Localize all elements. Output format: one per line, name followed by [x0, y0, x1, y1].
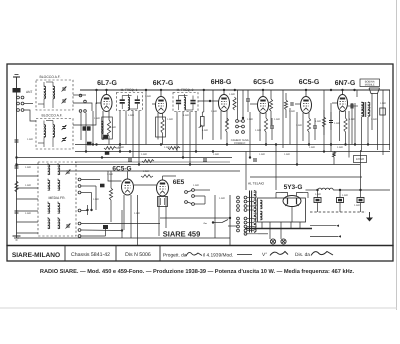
coupling parts V1-V2 area: [95, 89, 97, 104]
svg-text:M. FREQ. 1: M. FREQ. 1: [121, 88, 138, 92]
label 6K7-G: [153, 80, 174, 87]
svg-text:1.500: 1.500: [211, 110, 218, 113]
wire branch y199: [17, 198, 39, 200]
svg-text:6C5-G: 6C5-G: [112, 166, 131, 173]
ground arrow main: [366, 212, 373, 222]
wire rail y151.5: [75, 151, 390, 153]
title text il 1939: [203, 253, 233, 259]
wire branch y222: [17, 221, 39, 223]
svg-text:6N7-G: 6N7-G: [335, 80, 356, 87]
junction dots rail mid: [203, 89, 236, 91]
wire field coil line 2: [310, 235, 341, 237]
label choke: [0, 0, 1, 1]
tube V2 6K7-G: [156, 90, 167, 114]
wire b3 h6: [81, 210, 122, 238]
wire left col verticals: [81, 111, 93, 152]
tube V7 6C5-G: [122, 172, 134, 196]
title text Progett: [163, 253, 187, 259]
wire rail y177: [250, 176, 362, 178]
presa fono box: [354, 156, 367, 163]
page edge shadow bottom: [0, 307, 397, 309]
capacitor on antenna line 1: [15, 140, 19, 142]
title divider 2: [115, 246, 117, 262]
terminal circles mains bottom: [237, 217, 247, 235]
svg-text:ANT: ANT: [26, 90, 32, 94]
title dash: [237, 254, 252, 256]
svg-text:MEDIA FR.: MEDIA FR.: [49, 196, 66, 200]
svg-text:1.500: 1.500: [219, 197, 226, 200]
label MF2: [177, 88, 194, 92]
svg-text:1.500: 1.500: [380, 102, 387, 105]
svg-text:1.500: 1.500: [284, 153, 291, 156]
svg-text:1.500: 1.500: [141, 153, 148, 156]
cathode parts V4: [260, 113, 274, 145]
terminal circles mains top: [237, 196, 247, 211]
electrolytic C2: [337, 189, 344, 212]
capacitor on antenna line 2: [15, 166, 19, 168]
wire v drops 3: [213, 90, 290, 158]
schematic border frame: [7, 64, 393, 246]
wire mid connections: [108, 171, 176, 185]
wire sec leads down: [262, 222, 300, 239]
wire speaker leads: [372, 93, 378, 150]
cathode parts V2: [158, 113, 164, 145]
wire branch y211: [17, 210, 39, 212]
junction dots rails extra: [15, 143, 369, 165]
junction dots b3: [86, 209, 123, 232]
wire switch leads: [194, 190, 210, 204]
svg-text:1.500: 1.500: [143, 170, 150, 173]
svg-text:1.500: 1.500: [202, 129, 209, 132]
wire b+ down right: [360, 150, 362, 190]
wire rail AVC y144.5: [75, 144, 390, 146]
wire bottom rail B: [160, 217, 230, 219]
coil block B2: [36, 119, 73, 150]
title block outline: [7, 246, 393, 262]
switch label text: [231, 139, 250, 145]
title text Vo: [262, 252, 267, 258]
label blocco AF 1: [40, 75, 61, 79]
speaker label box: [360, 79, 380, 87]
decoupling c2: [203, 159, 207, 161]
resistor on antenna line: [15, 181, 18, 192]
svg-text:MOBILE: MOBILE: [365, 84, 375, 87]
svg-text:1.500: 1.500: [25, 184, 32, 187]
svg-text:1.500: 1.500: [259, 153, 266, 156]
wire branch y233: [17, 232, 39, 234]
label 6N7-G: [335, 80, 356, 87]
tube V3 6H8-G: [219, 90, 230, 112]
wire 5Y3 top leads: [281, 193, 303, 197]
decoupling r1: [104, 147, 120, 150]
wire ant sw to blocks: [24, 104, 36, 122]
IF transformer T1: [117, 93, 143, 111]
wire b3 h2: [81, 186, 96, 210]
output transformer T5: [361, 102, 370, 117]
decoupling r2: [168, 147, 180, 150]
capacitor blob c: [100, 184, 105, 188]
wire b3 h3: [81, 193, 92, 211]
resistor mid h: [141, 175, 153, 178]
wire b3 h7: [81, 228, 106, 237]
svg-text:1.500: 1.500: [334, 122, 341, 125]
svg-text:il 4.1939/Mod.: il 4.1939/Mod.: [203, 253, 233, 259]
svg-text:1.500: 1.500: [349, 118, 356, 121]
label 6C5-G mid: [112, 166, 131, 173]
cathode box V1: [102, 117, 113, 139]
cathode parts V6: [340, 111, 348, 145]
svg-text:1.500: 1.500: [128, 114, 135, 117]
svg-text:1.500: 1.500: [183, 114, 190, 117]
svg-text:6H8-G: 6H8-G: [211, 79, 232, 86]
parts V5 grid: [290, 103, 300, 105]
svg-text:1.500: 1.500: [289, 110, 296, 113]
svg-text:SIARE-MILANO: SIARE-MILANO: [12, 252, 60, 259]
wire v drops 1: [120, 111, 139, 165]
wire V7 down: [124, 195, 131, 238]
wire mid-to-bottom 1: [137, 195, 139, 246]
wire pot drop: [202, 90, 204, 112]
tube V6 6N7-G: [338, 90, 348, 112]
label blocco AF 2: [42, 114, 63, 118]
svg-text:1.500: 1.500: [255, 129, 262, 132]
label 6E5: [173, 179, 185, 186]
capacitor V5-V6: [329, 112, 333, 130]
title text SIARE-MILANO: [12, 252, 60, 259]
wire top rail: [80, 89, 390, 91]
capacitor det: [246, 90, 250, 112]
svg-text:V°: V°: [262, 252, 267, 258]
wire branch y188: [17, 187, 39, 189]
svg-text:6K7-G: 6K7-G: [153, 80, 174, 87]
wire b3 h4: [81, 205, 88, 215]
svg-text:1.500: 1.500: [309, 146, 316, 149]
coil block B3: [38, 162, 76, 236]
osc blob: [83, 126, 91, 130]
secondary winding: [260, 200, 262, 220]
wire B2 out: [73, 103, 101, 125]
label 5Y3-G: [284, 184, 303, 191]
wire 5Y3 plate leads: [276, 193, 308, 199]
decoupling r3: [142, 160, 154, 163]
page edge shadow right: [396, 0, 398, 310]
svg-text:1.500: 1.500: [110, 126, 117, 129]
terminal circles B3 right: [78, 178, 81, 237]
capacitor blob b: [105, 151, 110, 155]
wire B+ line: [306, 189, 317, 191]
svg-text:Chassis 5841-42: Chassis 5841-42: [71, 252, 110, 258]
svg-text:1.500: 1.500: [167, 118, 174, 121]
capacitor out: [347, 104, 358, 109]
wire rail y162: [75, 161, 230, 163]
decoupling c3: [253, 159, 257, 161]
svg-text:Dis N 5006: Dis N 5006: [125, 252, 151, 258]
caption text: [40, 268, 355, 275]
resistor mid right: [284, 93, 287, 118]
svg-text:1.500: 1.500: [213, 153, 220, 156]
title text Dis N 5006: [125, 252, 151, 258]
signature dis: [311, 252, 333, 256]
wire chassis dashed: [310, 211, 366, 213]
label SIARE 459: [163, 230, 201, 239]
svg-text:BLOCCO A.F.: BLOCCO A.F.: [40, 75, 61, 79]
parts V6 grid: [332, 102, 338, 104]
label 6H8-G: [211, 79, 232, 86]
wire transformer taps: [247, 198, 254, 231]
capacitor on antenna line 3: [15, 211, 19, 213]
wire v drops 5: [349, 103, 355, 158]
svg-text:1.500: 1.500: [342, 194, 349, 197]
wire out stage: [352, 90, 357, 145]
wire det vertical: [238, 90, 244, 120]
label MF1: [121, 88, 138, 92]
capacitor blob a: [87, 142, 92, 146]
resistor grid V4: [269, 90, 272, 125]
junction dots tube tops: [105, 89, 343, 91]
svg-text:1.500: 1.500: [193, 184, 200, 187]
cathode parts V5: [303, 113, 317, 145]
wire v drops 4: [297, 90, 331, 165]
dial lamp 2: [281, 239, 286, 244]
svg-text:6C5-G: 6C5-G: [299, 79, 320, 86]
svg-text:M. FREQ. 2: M. FREQ. 2: [177, 88, 194, 92]
svg-text:1.500: 1.500: [354, 204, 361, 207]
svg-text:1.500: 1.500: [145, 95, 152, 98]
power transformer T4: [250, 191, 257, 233]
junction dot rail r: [330, 89, 356, 91]
resistor mid v: [109, 171, 112, 222]
tube V8 6E5: [157, 176, 169, 196]
mains tilde: [203, 221, 207, 228]
terminal circles grid left: [79, 94, 86, 112]
parts V4 grid: [250, 103, 257, 105]
wire mains vertical: [229, 195, 231, 246]
resistor V5-V6 a: [322, 110, 325, 135]
wire mains leads: [212, 220, 237, 227]
label al telaio: [248, 182, 264, 186]
cathode parts V1: [101, 111, 111, 145]
wire mid-to-bottom 2: [215, 195, 230, 238]
tube V5 6C5-G: [301, 90, 312, 114]
signature vo: [270, 252, 288, 256]
dial lamp 1: [270, 239, 275, 244]
wire rail y164.5: [17, 164, 361, 166]
svg-text:SIARE 459: SIARE 459: [163, 230, 201, 239]
junction rail dots: [95, 143, 346, 152]
svg-text:RADIO SIARE. — Mod. 450 e 459-: RADIO SIARE. — Mod. 450 e 459-Fono. — Pr…: [40, 268, 355, 275]
wire rail y157.5: [17, 157, 233, 159]
svg-text:1.500: 1.500: [118, 146, 125, 149]
svg-text:1.500: 1.500: [315, 120, 322, 123]
wire bottom rail A: [17, 237, 231, 239]
title divider 3: [159, 246, 161, 262]
svg-text:1.500: 1.500: [274, 118, 281, 121]
decoupling c1: [128, 159, 132, 161]
label media freq box: [49, 196, 66, 200]
label 6C5-G b: [299, 79, 320, 86]
wire antenna down: [16, 92, 18, 238]
wire hv vertical: [275, 145, 277, 191]
svg-text:1.500: 1.500: [296, 124, 303, 127]
svg-text:BLOCCO A.F.: BLOCCO A.F.: [42, 114, 63, 118]
title text Dis da: [295, 252, 310, 258]
junction bottom: [229, 217, 231, 219]
svg-text:1.500: 1.500: [229, 93, 236, 96]
electrolytic C3: [357, 189, 364, 212]
svg-text:1.500: 1.500: [164, 146, 171, 149]
cathode parts V3: [221, 111, 229, 145]
svg-text:1.500: 1.500: [93, 198, 100, 201]
label 6C5-G a: [253, 79, 274, 86]
signature progett: [186, 252, 202, 256]
svg-text:1.500: 1.500: [107, 173, 114, 176]
coil block B1: [36, 80, 73, 110]
tube V1 6L7-G: [101, 90, 112, 112]
label 6L7-G: [97, 80, 117, 87]
parts between T2 and V3: [198, 100, 219, 102]
svg-text:FONO: FONO: [356, 157, 365, 161]
wire field coil line 1: [310, 225, 339, 227]
wire B1 out: [73, 95, 92, 111]
resistor det 1: [233, 97, 236, 110]
wire V8 down: [159, 196, 166, 236]
antenna: [13, 75, 20, 93]
blob b3: [103, 225, 108, 229]
ground antenna line: [13, 236, 21, 240]
electrolytic C1: [314, 189, 321, 212]
svg-text:1.500: 1.500: [94, 117, 101, 120]
terminal circles antenna switch: [17, 96, 24, 111]
svg-text:1.500: 1.500: [337, 146, 344, 149]
svg-text:Progett. da: Progett. da: [163, 253, 187, 259]
volume potentiometer: [198, 112, 204, 140]
junction det: [242, 117, 244, 119]
resistor right v: [332, 152, 335, 165]
svg-text:1.500: 1.500: [27, 138, 34, 141]
wire lamp rail: [246, 233, 259, 235]
antenna coil blob: [13, 88, 33, 94]
tiny value labels: [25, 93, 387, 215]
wire b3 h5: [81, 223, 160, 225]
wire rail y171: [60, 170, 240, 172]
cathode box V2: [156, 117, 166, 137]
switch contacts mid: [185, 189, 195, 206]
filter choke L1: [316, 188, 390, 190]
phono jack box: [158, 197, 168, 207]
svg-text:1.500: 1.500: [371, 118, 378, 121]
band switch circles: [236, 120, 245, 134]
svg-text:1.500: 1.500: [25, 166, 32, 169]
svg-text:6L7-G: 6L7-G: [97, 80, 117, 87]
title text Chassis 5841-42: [71, 252, 110, 258]
svg-text:~: ~: [203, 221, 207, 228]
coupling parts V2 right: [145, 89, 156, 145]
power secondary box: [258, 198, 306, 222]
wire mid-to-bottom 3: [245, 152, 247, 191]
svg-text:6C5-G: 6C5-G: [253, 79, 274, 86]
svg-text:AL TELAIO: AL TELAIO: [248, 182, 264, 186]
speaker cone: [369, 88, 380, 94]
svg-text:1.500: 1.500: [25, 212, 32, 215]
svg-text:Dis. da: Dis. da: [295, 252, 310, 258]
IF transformer T2: [173, 93, 198, 112]
wire v drops 2: [177, 112, 196, 165]
wire right verticals: [362, 90, 390, 155]
tube V4 6C5-G: [258, 90, 269, 114]
title divider 1: [64, 246, 66, 262]
wire b3 h1: [81, 179, 100, 181]
capacitor right box: [380, 108, 386, 115]
tube V9 5Y3-G rectifier: [283, 196, 301, 207]
svg-text:1.500: 1.500: [247, 118, 254, 121]
svg-text:1.500: 1.500: [315, 193, 322, 196]
wire HT top: [291, 207, 293, 223]
svg-text:1.500: 1.500: [134, 212, 141, 215]
wire heater rail bottom: [245, 229, 312, 234]
svg-text:5Y3-G: 5Y3-G: [284, 184, 303, 191]
svg-text:6E5: 6E5: [173, 179, 185, 186]
wire branch y176: [17, 175, 39, 177]
